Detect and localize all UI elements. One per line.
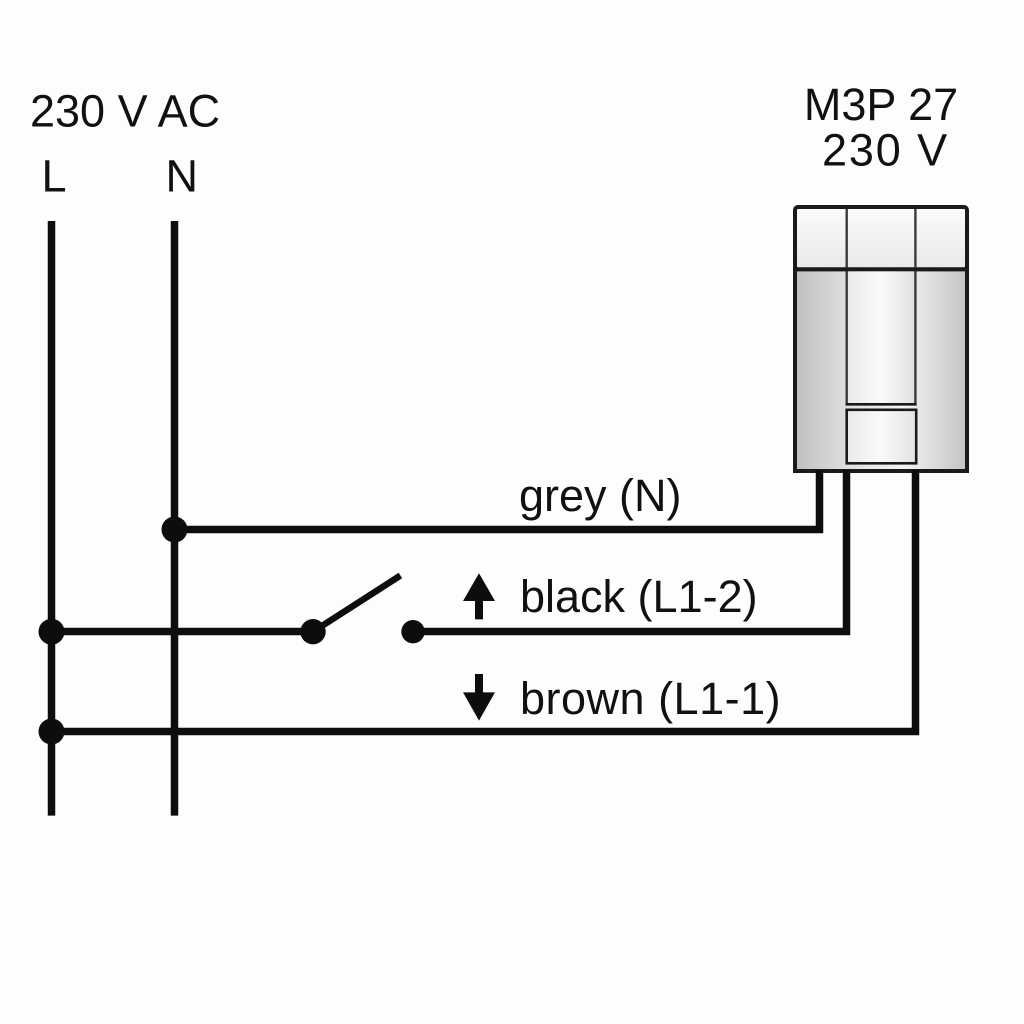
svg-text:N: N [166,151,199,202]
svg-text:230 V: 230 V [822,125,949,176]
svg-text:grey (N): grey (N) [519,470,682,521]
svg-text:L: L [42,151,67,202]
svg-text:M3P 27: M3P 27 [804,79,958,130]
svg-text:brown (L1-1): brown (L1-1) [520,673,781,724]
svg-text:230 V AC: 230 V AC [30,86,220,137]
svg-text:black (L1-2): black (L1-2) [520,571,758,622]
